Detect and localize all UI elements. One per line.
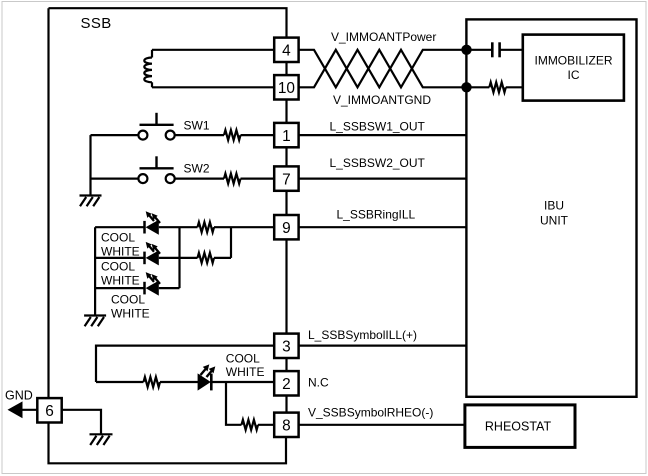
LED D2 (ring) — [145, 242, 161, 266]
svg-text:L_SSBSymbolILL(+): L_SSBSymbolILL(+) — [308, 328, 417, 342]
ground (pin 6) — [90, 434, 113, 445]
GND arrow — [8, 401, 38, 418]
wire pin 8 to RHEOSTAT — [299, 424, 465, 426]
wire pin 9 to IBU — [299, 226, 467, 228]
wire column pin1-pin7 — [285, 147, 287, 166]
svg-text:L_SSBSW1_OUT: L_SSBSW1_OUT — [330, 120, 426, 134]
wire resistor to pin 9 — [214, 226, 274, 228]
resistor R5 (ring row2) — [198, 253, 215, 263]
svg-text:IBU: IBU — [544, 199, 564, 213]
switch SW2 — [91, 156, 175, 183]
wire column pin3-pin2 — [285, 358, 287, 371]
ground (ring LED bus) — [84, 316, 106, 327]
wire resistor to pin 7 — [241, 178, 275, 180]
wire join row2 to row1 — [230, 227, 232, 258]
svg-text:4: 4 — [282, 43, 291, 60]
wire column pin7-pin9 — [285, 191, 287, 215]
wire SW1 to resistor — [175, 134, 224, 136]
connector pin 2 — [274, 371, 298, 395]
connector pin 1 — [274, 123, 298, 147]
svg-text:6: 6 — [45, 403, 54, 420]
svg-text:COOL: COOL — [111, 293, 145, 307]
wire LED D4 to pin 2 — [212, 381, 275, 383]
resistor R6 (symbol) — [96, 377, 199, 387]
svg-text:1: 1 — [282, 128, 291, 145]
antenna coil L1 — [144, 50, 152, 88]
wire pin 7 to IBU — [299, 178, 467, 180]
svg-text:WHITE: WHITE — [101, 245, 140, 259]
switch SW1 — [91, 113, 175, 140]
wire LED D1 to resistor — [159, 226, 198, 228]
svg-text:V_IMMOANTGND: V_IMMOANTGND — [333, 93, 431, 107]
SSB module outline left edge — [47, 8, 49, 398]
wire column pin10-pin1 — [285, 100, 287, 123]
RHEOSTAT box — [465, 405, 575, 448]
wire bus to LED D2 — [95, 257, 144, 259]
IMMOBILIZER IC box — [523, 35, 624, 101]
wire LED D3 to join column — [159, 287, 180, 289]
svg-text:COOL: COOL — [226, 351, 260, 365]
connector pin 8 — [274, 413, 298, 437]
svg-text:N.C: N.C — [308, 376, 329, 390]
wire bus to LED D3 — [95, 287, 144, 289]
twisted pair wire A (pin4 to antenna gnd dot) — [299, 50, 467, 88]
LED D3 (ring) — [145, 272, 161, 296]
svg-text:7: 7 — [282, 171, 291, 188]
svg-text:9: 9 — [282, 220, 291, 237]
ground (switch bus) — [80, 196, 102, 207]
wire SW2 to resistor — [175, 178, 224, 180]
switch bus wire (left) — [89, 135, 91, 195]
resistor R1 (immobilizer gnd) — [467, 82, 523, 92]
svg-text:WHITE: WHITE — [111, 307, 150, 321]
svg-text:2: 2 — [282, 376, 291, 393]
wire LED D2 to resistor — [159, 257, 198, 259]
wire column pin2-pin8 — [285, 396, 287, 413]
svg-text:3: 3 — [282, 339, 291, 356]
svg-text:WHITE: WHITE — [101, 274, 140, 288]
SSB module outline bottom edge — [49, 423, 287, 463]
wire pin 3 left and down — [96, 346, 274, 382]
wire resistor to pin 1 — [241, 134, 275, 136]
svg-text:SSB: SSB — [81, 15, 112, 32]
wire junction down to rheostat resistor — [226, 382, 242, 425]
wire resistor row2 to join — [214, 257, 231, 259]
svg-text:SW2: SW2 — [184, 162, 210, 176]
svg-text:L_SSBRingILL: L_SSBRingILL — [337, 208, 416, 222]
connector pin 6 — [37, 398, 61, 422]
svg-text:UNIT: UNIT — [540, 214, 569, 228]
connector pin 10 — [274, 75, 298, 99]
connector pin 3 — [274, 334, 298, 358]
svg-text:8: 8 — [282, 418, 291, 435]
IBU UNIT box — [466, 19, 636, 396]
wire column pin4-pin10 — [285, 62, 287, 75]
resistor R4 (ring row1) — [198, 222, 215, 232]
twisted pair wire B (pin10 to antenna power dot) — [299, 50, 467, 88]
svg-text:IC: IC — [568, 68, 580, 82]
connector pin 7 — [274, 166, 298, 190]
wire bus to LED D1 — [95, 226, 144, 228]
wire pin 1 to IBU — [299, 134, 467, 136]
wire resistor to pin 8 — [258, 424, 274, 426]
wire column pin9-pin3 — [285, 239, 287, 333]
SSB module outline top edge — [49, 8, 287, 37]
svg-text:V_SSBSymbolRHEO(-): V_SSBSymbolRHEO(-) — [308, 406, 433, 420]
junction dot (gnd) — [461, 82, 471, 92]
svg-text:SW1: SW1 — [184, 119, 210, 133]
svg-text:COOL: COOL — [101, 260, 135, 274]
junction dot (power) — [461, 45, 471, 55]
capacitor C1 — [467, 42, 523, 57]
LED D4 (symbol, pointing right) — [198, 364, 216, 390]
svg-text:L_SSBSW2_OUT: L_SSBSW2_OUT — [330, 156, 426, 170]
svg-text:RHEOSTAT: RHEOSTAT — [485, 420, 552, 434]
wire coil to pin 4 — [152, 49, 274, 51]
wire pin 6 to ground — [62, 410, 101, 435]
svg-text:V_IMMOANTPower: V_IMMOANTPower — [331, 30, 436, 44]
wire join column D1-D3 — [178, 227, 180, 288]
svg-text:10: 10 — [278, 80, 295, 97]
svg-text:IMMOBILIZER: IMMOBILIZER — [534, 54, 612, 68]
resistor R7 (rheostat) — [242, 420, 259, 430]
resistor R3 (SW2) — [224, 174, 241, 184]
svg-text:WHITE: WHITE — [226, 365, 265, 379]
ring LED bus wire (left) — [94, 227, 96, 315]
svg-text:GND: GND — [5, 389, 33, 403]
wire coil to pin 10 — [152, 86, 274, 88]
LED D1 (ring) — [145, 211, 161, 235]
connector pin 9 — [274, 215, 298, 239]
svg-text:COOL: COOL — [101, 231, 135, 245]
connector pin 4 — [274, 38, 298, 62]
resistor R2 (SW1) — [224, 130, 241, 140]
wire pin 3 to IBU — [299, 345, 467, 347]
